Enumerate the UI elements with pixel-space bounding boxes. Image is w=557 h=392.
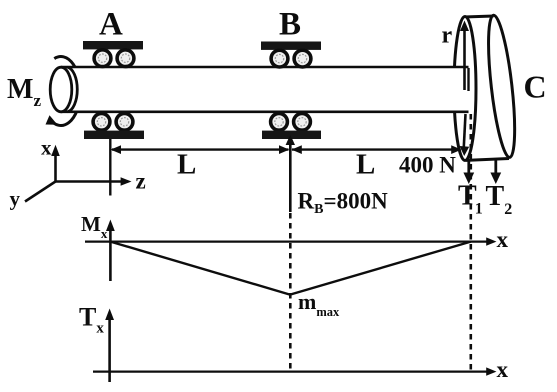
shaft top edge bbox=[61, 66, 469, 69]
pulley top tangent line bbox=[464, 16, 494, 17]
svg-text:L: L bbox=[177, 149, 196, 181]
dimension line A to B bbox=[112, 148, 289, 150]
bearing A bottom rollers bbox=[93, 113, 133, 130]
svg-text:L: L bbox=[356, 149, 375, 181]
Mx diagram horizontal axis bbox=[85, 241, 492, 243]
force arrow 400 N at pulley bottom bbox=[464, 114, 466, 147]
coordinate frame y axis bbox=[25, 182, 56, 202]
dimension line B to pulley bbox=[292, 148, 460, 150]
bearing A bottom support bar bbox=[84, 131, 144, 139]
svg-text:x: x bbox=[497, 227, 509, 252]
pulley bottom tangent line bbox=[466, 159, 509, 161]
bearing B bottom rollers bbox=[271, 113, 311, 130]
tension arrow T1 bbox=[467, 161, 470, 174]
tension arrow T2 bbox=[494, 161, 497, 175]
Tx diagram horizontal axis bbox=[93, 371, 492, 373]
svg-text:C: C bbox=[524, 69, 547, 105]
radius arrow r on pulley bbox=[463, 29, 466, 90]
svg-text:A: A bbox=[99, 7, 123, 43]
arrowhead of Mz arc bbox=[46, 115, 58, 125]
svg-text:r: r bbox=[442, 23, 453, 49]
svg-text:x: x bbox=[41, 136, 52, 160]
shaft left end cap rear arc bbox=[68, 67, 78, 111]
pulley C left face ellipse bbox=[454, 17, 476, 161]
coordinate frame z axis bbox=[56, 180, 127, 183]
reaction arrow RB (up into bearing B) bbox=[289, 138, 292, 212]
bearing A top rollers bbox=[94, 50, 134, 67]
extension line below bearing A bbox=[109, 139, 111, 196]
bending moment curve bbox=[110, 242, 470, 295]
Tx diagram vertical axis bbox=[108, 315, 111, 382]
coordinate frame x axis bbox=[54, 152, 57, 182]
svg-text:x: x bbox=[497, 357, 509, 382]
svg-text:RB=800N: RB=800N bbox=[298, 189, 389, 218]
dashed line below pulley down to torque diagram bbox=[469, 114, 472, 371]
bearing B top rollers bbox=[271, 50, 311, 67]
shaft bottom edge bbox=[61, 111, 469, 114]
svg-text:400 N: 400 N bbox=[399, 153, 456, 178]
svg-text:z: z bbox=[136, 169, 146, 194]
moment arrow Mz (curved arc around shaft left end) bbox=[50, 57, 81, 126]
svg-text:B: B bbox=[279, 7, 301, 43]
dashed line below B down to torque diagram bbox=[289, 213, 292, 371]
bearing A top support bar bbox=[83, 41, 143, 49]
pulley C right face (tilted ellipse) bbox=[483, 14, 520, 158]
bearing B top support bar bbox=[261, 42, 321, 50]
svg-text:y: y bbox=[10, 187, 21, 211]
Mx diagram vertical axis bbox=[109, 226, 112, 281]
shaft left end face ellipse bbox=[50, 67, 72, 112]
shaft body bbox=[61, 67, 469, 112]
shaft right end edge inside pulley bbox=[467, 68, 469, 91]
bearing B bottom support bar bbox=[262, 131, 321, 139]
